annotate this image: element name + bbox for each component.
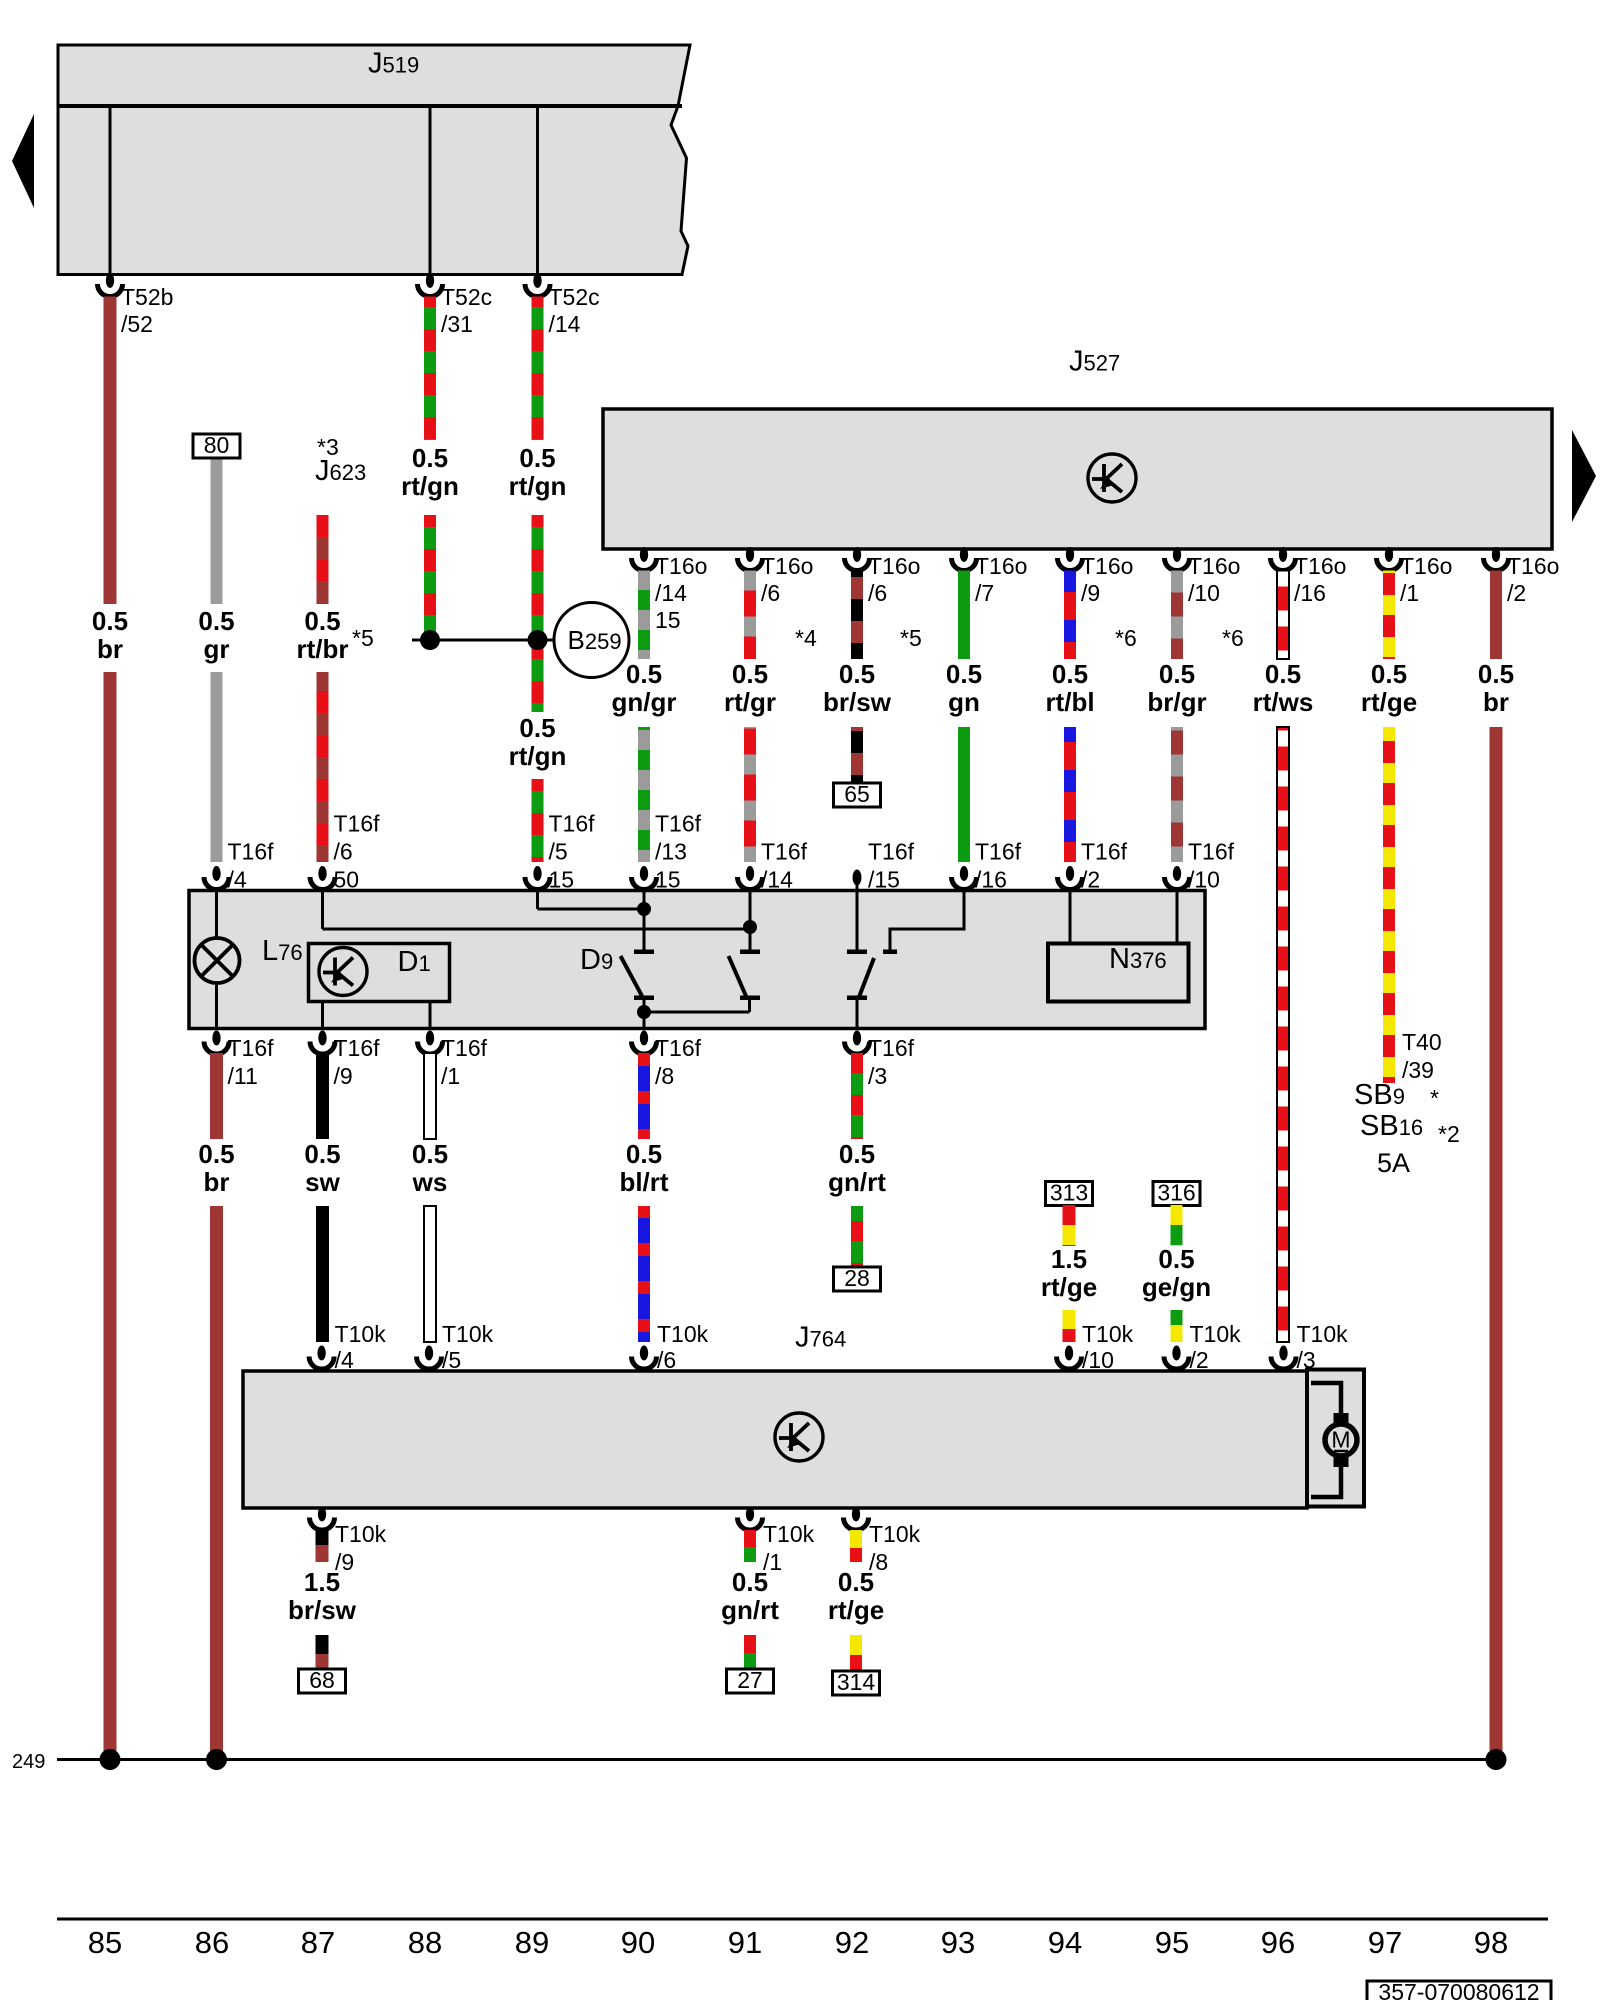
wire 0.5 rt/gn to junction: [424, 515, 436, 634]
svg-text:J764: J764: [795, 1322, 846, 1354]
label 1.5 br/sw: [288, 1567, 357, 1625]
svg-text:T16f: T16f: [549, 811, 596, 837]
svg-text:rt/bl: rt/bl: [1045, 687, 1094, 717]
wire gn/gr segment to T16f/13: [638, 727, 650, 862]
svg-text:0.5: 0.5: [839, 659, 875, 689]
wire 0.5 gn/rt from T10k/1: [744, 1530, 756, 1562]
wire 0.5 br upper segment (track 85): [104, 297, 117, 605]
svg-text:/6: /6: [761, 580, 780, 606]
svg-text:T16o: T16o: [1081, 553, 1133, 579]
switch D9 contact 3 top bar: [847, 950, 867, 955]
wire rail from T16f/6 to switch D9: [323, 928, 752, 931]
wire 0.5 ws from T16f/1: [424, 1053, 436, 1139]
svg-text:/16: /16: [975, 867, 1007, 893]
wire 0.5 br/sw short segment under J527: [851, 571, 863, 660]
label 0.5 rt/gn (left): [401, 443, 459, 501]
label 0.5 br: [1478, 659, 1514, 717]
svg-text:94: 94: [1048, 1925, 1082, 1960]
svg-text:357-070080612: 357-070080612: [1378, 1979, 1539, 2000]
svg-text:*4: *4: [795, 625, 817, 651]
wire 0.5 gn/gr short segment under J527: [638, 571, 650, 660]
label 0.5 rt/ws: [1253, 659, 1314, 717]
label 0.5 gn/rt (track 91): [721, 1567, 779, 1625]
label T16f/11: [228, 1035, 275, 1089]
svg-text:gn/rt: gn/rt: [828, 1167, 886, 1197]
current track scale line: [57, 1918, 1548, 1921]
label T10k/2: [1190, 1321, 1242, 1373]
switch illumination unit D1: [309, 944, 450, 1002]
terminal 80 box: [193, 432, 240, 458]
svg-text:28: 28: [844, 1265, 870, 1291]
label 0.5 br (track 86): [198, 1139, 234, 1197]
terminal 68 box: [299, 1667, 346, 1693]
label 0.5 rt/ge: [1361, 659, 1417, 717]
wire inside J519 to T52b/52: [109, 106, 112, 282]
wire 0.5 br long segment to ground 249 (track 98): [1490, 727, 1503, 1755]
label T16f/3: [868, 1035, 915, 1089]
svg-text:B259: B259: [568, 625, 622, 655]
svg-text:T10k: T10k: [1082, 1321, 1134, 1347]
label 0.5 bl/rt: [619, 1139, 668, 1197]
svg-text:N376: N376: [1109, 943, 1167, 975]
label 0.5 rt/gr: [724, 659, 776, 717]
svg-text:/10: /10: [1082, 1347, 1114, 1373]
label 0.5 gr: [198, 606, 234, 664]
connector T16o/9 (rt/bl): [1058, 547, 1083, 571]
svg-text:15: 15: [655, 607, 681, 633]
svg-text:T16o: T16o: [761, 553, 813, 579]
label T10k/5: [442, 1321, 494, 1373]
wire from T16f/2 to N376: [1069, 891, 1072, 944]
junction node at switch 1 feed: [637, 902, 651, 916]
label T16f/16: [975, 839, 1022, 893]
svg-text:/6: /6: [334, 839, 353, 865]
svg-text:T16o: T16o: [868, 553, 920, 579]
svg-text:gn/rt: gn/rt: [721, 1595, 779, 1625]
label T10k/1: [763, 1521, 815, 1575]
wire 1.5 rt/ge from 313: [1063, 1205, 1076, 1246]
wire from T16f/13 to switch 1: [643, 891, 646, 950]
wire from T16f/4 to lamp L76: [215, 891, 218, 939]
terminal 316 box: [1153, 1180, 1200, 1206]
wire from T16f/16 to switch 3 second contact: [890, 891, 964, 950]
connector T10k/2 (top of J764): [1164, 1346, 1189, 1370]
switch D9 blade 3: [859, 958, 874, 997]
wire 0.5 br/gr short segment under J527: [1171, 571, 1183, 660]
connector T16f/2 (top of switch unit): [1058, 866, 1083, 889]
control unit J764 box: [243, 1371, 1307, 1508]
svg-text:*6: *6: [1115, 625, 1137, 651]
svg-text:/9: /9: [334, 1063, 353, 1089]
svg-text:0.5: 0.5: [92, 606, 128, 636]
svg-text:br: br: [97, 634, 123, 664]
label T16o/14: [655, 553, 707, 633]
svg-text:T10k: T10k: [869, 1521, 921, 1547]
connector T10k/9 (bottom of J764): [310, 1507, 335, 1530]
wire from D1 to T16f/9: [321, 1002, 324, 1029]
wire 0.5 br short segment under J527: [1490, 571, 1502, 660]
svg-text:SB9: SB9: [1354, 1079, 1405, 1111]
svg-text:br/gr: br/gr: [1147, 687, 1206, 717]
switch D9 blade 1: [621, 956, 643, 996]
label T16o/6: [761, 553, 813, 606]
connector T16f/3 (bottom of switch unit): [845, 1031, 870, 1055]
terminal 65 box: [834, 781, 881, 807]
label T16f/8: [655, 1035, 702, 1089]
wire from T16f/10 to N376: [1176, 891, 1179, 944]
label T16o/16: [1294, 553, 1346, 606]
svg-text:T10k: T10k: [1297, 1321, 1349, 1347]
wire from T16f/5 to switch 1: [538, 908, 645, 911]
svg-text:0.5: 0.5: [1478, 659, 1514, 689]
svg-text:/3: /3: [868, 1063, 887, 1089]
svg-text:T52c: T52c: [549, 284, 600, 310]
wire 0.5 sw to T10k/4: [316, 1206, 329, 1342]
svg-text:0.5: 0.5: [198, 1139, 234, 1169]
terminal 313 box: [1046, 1180, 1093, 1206]
arrow continuation left: [12, 114, 34, 208]
svg-text:D1: D1: [398, 946, 431, 978]
svg-text:0.5: 0.5: [1159, 659, 1195, 689]
wire br/sw segment to terminal 65: [851, 727, 863, 783]
svg-text:0.5: 0.5: [412, 443, 448, 473]
wire from pin T16f/15 to switch 3: [856, 885, 859, 950]
svg-text:0.5: 0.5: [838, 1567, 874, 1597]
wire 0.5 rt/ge short segment under J527: [1383, 571, 1395, 660]
svg-text:/2: /2: [1081, 867, 1100, 893]
svg-text:/31: /31: [441, 311, 473, 337]
svg-text:rt/ge: rt/ge: [828, 1595, 884, 1625]
wire 0.5 gr lower segment to T16f/4: [211, 672, 223, 862]
svg-text:T16f: T16f: [655, 811, 702, 837]
terminal 28 box: [834, 1265, 881, 1291]
svg-text:0.5: 0.5: [732, 1567, 768, 1597]
connector T10k/8 (bottom of J764): [844, 1507, 869, 1530]
connector T10k/5 (top of J764): [417, 1346, 442, 1370]
wire from switch 3 to T16f/3: [856, 1000, 859, 1029]
wire 0.5 bl/rt to T10k/6: [638, 1206, 650, 1342]
wire from switch 2 to output link: [748, 1000, 751, 1012]
svg-text:T10k: T10k: [763, 1521, 815, 1547]
wire from T16f/5 down: [536, 891, 539, 910]
svg-text:T16o: T16o: [1507, 553, 1559, 579]
label T10k/3: [1297, 1321, 1349, 1373]
label T52b/52: [121, 284, 173, 337]
wire rt/ge long segment to fuse SB9/SB16: [1383, 727, 1395, 1083]
label T16o/2: [1507, 553, 1559, 606]
svg-text:0.5: 0.5: [1265, 659, 1301, 689]
svg-text:T16f: T16f: [1081, 839, 1128, 865]
svg-text:0.5: 0.5: [1052, 659, 1088, 689]
svg-text:/2: /2: [1507, 580, 1526, 606]
motor compartment box of J764: [1307, 1370, 1364, 1507]
label T10k/8: [869, 1521, 921, 1575]
junction node on switch rail: [743, 920, 757, 934]
comfort-system symbol inside J527: [1088, 454, 1136, 502]
wire 0.5 rt/gn from T52c/31 upper: [424, 297, 436, 441]
wire from T16f/14 to switch 2: [749, 891, 752, 950]
svg-text:0.5: 0.5: [304, 1139, 340, 1169]
svg-text:T16f: T16f: [334, 811, 381, 837]
label T16o/7: [975, 553, 1027, 606]
wire 0.5 br lower segment to ground 249: [104, 672, 117, 1755]
svg-text:br/sw: br/sw: [823, 687, 892, 717]
label T16f/13: [655, 811, 702, 893]
svg-text:T16f: T16f: [1188, 839, 1235, 865]
svg-text:0.5: 0.5: [839, 1139, 875, 1169]
svg-text:M: M: [1331, 1427, 1350, 1453]
connector T16o/1 (rt/ge): [1377, 547, 1402, 571]
wire from switch 1 to output node: [643, 1000, 646, 1012]
label 0.5 ws: [412, 1139, 448, 1197]
svg-text:J527: J527: [1069, 346, 1120, 378]
svg-text:0.5: 0.5: [946, 659, 982, 689]
svg-text:249: 249: [12, 1751, 45, 1773]
svg-text:/52: /52: [121, 311, 153, 337]
wire 0.5 sw from T16f/9: [316, 1053, 329, 1139]
svg-text:*5: *5: [900, 625, 922, 651]
svg-text:T16o: T16o: [1294, 553, 1346, 579]
label T52c/31: [441, 284, 492, 337]
svg-text:L76: L76: [262, 935, 303, 967]
label T16f/5: [549, 811, 596, 893]
svg-text:/7: /7: [975, 580, 994, 606]
svg-text:90: 90: [621, 1925, 655, 1960]
wire 0.5 ws to T10k/5: [424, 1206, 436, 1342]
svg-text:/39: /39: [1402, 1057, 1434, 1083]
svg-text:bl/rt: bl/rt: [619, 1167, 668, 1197]
sensor B259: [554, 603, 629, 678]
label T10k/9: [335, 1521, 387, 1575]
svg-text:91: 91: [728, 1925, 762, 1960]
svg-text:0.5: 0.5: [732, 659, 768, 689]
svg-text:T16f: T16f: [975, 839, 1022, 865]
svg-text:1.5: 1.5: [304, 1567, 340, 1597]
connector T52c/14: [525, 273, 550, 297]
connector T16f/11 (bottom of switch unit): [204, 1031, 229, 1055]
svg-text:/2: /2: [1190, 1347, 1209, 1373]
label 0.5 gn/gr: [612, 659, 677, 717]
switch D9 contact 3 bottom bar: [847, 996, 867, 1001]
svg-text:96: 96: [1261, 1925, 1295, 1960]
svg-text:T10k: T10k: [335, 1521, 387, 1547]
svg-text:92: 92: [835, 1925, 869, 1960]
junction node at T16f/8 output: [637, 1005, 651, 1019]
arrow continuation right: [1572, 430, 1596, 522]
wire 0.5 br from T16f/11: [210, 1053, 223, 1139]
connector T16f/14 (top of switch unit): [738, 866, 763, 889]
svg-text:T16f: T16f: [761, 839, 808, 865]
wire 0.5 rt/bl short segment under J527: [1064, 571, 1076, 660]
svg-text:5A: 5A: [1377, 1148, 1410, 1178]
connector T16o/7 (gn): [952, 547, 977, 571]
connector T16f/4 (top of switch unit): [204, 866, 229, 889]
J519 internal bus line: [58, 104, 682, 108]
svg-text:65: 65: [844, 781, 870, 807]
svg-text:/16: /16: [1294, 580, 1326, 606]
connector T16o/10 (br/gr): [1165, 547, 1190, 571]
wire 0.5 rt/ge to terminal 314: [850, 1635, 862, 1671]
motor M symbol: [1311, 1383, 1357, 1497]
svg-text:/3: /3: [1297, 1347, 1316, 1373]
svg-text:/4: /4: [335, 1347, 354, 1373]
connector T16f/6 (top of switch unit): [310, 866, 335, 889]
svg-text:T16o: T16o: [1400, 553, 1452, 579]
connector T16o/6 (rt/gr): [738, 547, 763, 571]
svg-text:0.5: 0.5: [519, 443, 555, 473]
svg-text:86: 86: [195, 1925, 229, 1960]
label T16f/2: [1081, 839, 1128, 893]
svg-text:/8: /8: [655, 1063, 674, 1089]
wire 0.5 rt/ws short segment under J527: [1277, 571, 1289, 660]
pin T16f/15: [853, 870, 862, 886]
terminal 314 box: [833, 1669, 880, 1695]
svg-text:ge/gn: ge/gn: [1142, 1272, 1211, 1302]
switch D9 contact 4 bar: [883, 950, 897, 955]
connector T16f/9 (bottom of switch unit): [310, 1031, 335, 1055]
svg-text:0.5: 0.5: [1158, 1244, 1194, 1274]
label T16o/10: [1188, 553, 1240, 606]
diagram reference number box: [1367, 1979, 1551, 2000]
svg-text:/5: /5: [549, 839, 568, 865]
connector T16o/6 (br/sw): [845, 547, 870, 571]
svg-text:br: br: [204, 1167, 230, 1197]
wire rt/gr segment to T16f/14: [744, 727, 756, 862]
ground junction (track 98): [1486, 1749, 1507, 1770]
wire 1.5 br/sw to terminal 68: [316, 1635, 329, 1669]
svg-text:0.5: 0.5: [626, 659, 662, 689]
comfort-system symbol inside J764: [775, 1413, 823, 1461]
svg-text:/10: /10: [1188, 580, 1220, 606]
wire 0.5 ge/gn from 316: [1171, 1205, 1183, 1246]
connector T52c/31: [418, 273, 443, 297]
switch D9 blade 2: [729, 956, 747, 996]
svg-text:br: br: [1483, 687, 1509, 717]
svg-text:rt/ge: rt/ge: [1041, 1272, 1097, 1302]
label 0.5 rt/gn (below junction): [509, 713, 567, 771]
label T40/39: [1402, 1029, 1442, 1083]
connector T10k/6 (top of J764): [632, 1346, 657, 1370]
control unit J527 box: [603, 409, 1552, 549]
wire rt/bl segment to T16f/2: [1064, 727, 1076, 862]
label 0.5 rt/br: [297, 606, 349, 664]
svg-text:T16f: T16f: [655, 1035, 702, 1061]
svg-text:/15: /15: [868, 867, 900, 893]
switch D9 contact 2 bottom bar: [740, 996, 760, 1001]
connector T16f/16 (top of switch unit): [952, 866, 977, 889]
current track numbers 85-98: [88, 1925, 1508, 1960]
wire 0.5 rt/gn mid segment: [532, 515, 544, 712]
svg-text:68: 68: [309, 1667, 335, 1693]
label T16f/14: [761, 839, 808, 893]
regulator N376 box: [1048, 944, 1189, 1002]
label T16f/6: [334, 811, 381, 893]
svg-text:T16o: T16o: [655, 553, 707, 579]
light switch control unit box: [189, 891, 1205, 1029]
svg-text:gr: gr: [204, 634, 230, 664]
svg-text:97: 97: [1368, 1925, 1402, 1960]
wire 0.5 gn/rt to terminal 27: [744, 1635, 756, 1669]
label T16o/9: [1081, 553, 1133, 606]
svg-text:T16f: T16f: [868, 839, 915, 865]
label T10k/10: [1082, 1321, 1134, 1373]
comfort-system symbol inside D1: [319, 948, 367, 996]
svg-text:SB16: SB16: [1360, 1110, 1423, 1142]
svg-text:/4: /4: [228, 867, 247, 893]
connector T16o/2 (br): [1484, 547, 1509, 571]
lamp L76: [195, 938, 240, 983]
label 0.5 br/gr: [1147, 659, 1206, 717]
ground junction (track 86): [206, 1749, 227, 1770]
svg-text:15: 15: [549, 867, 575, 893]
terminal 27 box: [727, 1667, 774, 1693]
label 1.5 rt/ge: [1041, 1244, 1097, 1302]
label T16f/10: [1188, 839, 1235, 893]
wire inside J519 to T52c/14: [536, 106, 539, 282]
svg-text:80: 80: [204, 432, 230, 458]
svg-text:gn: gn: [948, 687, 980, 717]
wire 0.5 rt/br lower segment to T16f/6: [317, 672, 329, 862]
svg-text:gn/gr: gn/gr: [612, 687, 677, 717]
svg-text:/1: /1: [441, 1063, 460, 1089]
svg-text:T10k: T10k: [442, 1321, 494, 1347]
junction node on rt/gn wire (left): [420, 630, 440, 650]
svg-text:/6: /6: [868, 580, 887, 606]
wire 0.5 br to ground 249 (track 86): [210, 1206, 223, 1755]
svg-text:89: 89: [515, 1925, 549, 1960]
svg-text:316: 316: [1157, 1180, 1195, 1206]
wire 0.5 gn short segment under J527: [958, 571, 970, 660]
label 0.5 gn: [946, 659, 982, 717]
svg-text:J519: J519: [368, 48, 419, 80]
wire link to B259: [412, 639, 556, 642]
label 0.5 sw: [304, 1139, 340, 1197]
label T16f/4: [228, 839, 275, 893]
svg-text:27: 27: [737, 1667, 763, 1693]
label 0.5 br (track 85): [92, 606, 128, 664]
connector T10k/1 (bottom of J764): [738, 1507, 763, 1530]
svg-text:/5: /5: [442, 1347, 461, 1373]
svg-text:/11: /11: [228, 1063, 258, 1089]
wire 0.5 rt/gr short segment under J527: [744, 571, 756, 660]
label T10k/6: [657, 1321, 709, 1373]
svg-text:1.5: 1.5: [1051, 1244, 1087, 1274]
svg-text:D9: D9: [580, 944, 613, 976]
svg-text:T10k: T10k: [657, 1321, 709, 1347]
wire from output node to T16f/8: [643, 1012, 646, 1029]
wire 0.5 gr upper segment: [211, 460, 223, 605]
connector T10k/10 (top of J764): [1057, 1346, 1082, 1370]
ground junction (track 85): [100, 1749, 121, 1770]
svg-text:ws: ws: [412, 1167, 448, 1197]
svg-text:T16f: T16f: [868, 1035, 915, 1061]
wire inside J519 to T52c/31: [429, 106, 432, 282]
svg-text:rt/ws: rt/ws: [1253, 687, 1314, 717]
svg-text:*6: *6: [1222, 625, 1244, 651]
wire from lamp L76 to T16f/11: [215, 983, 218, 1029]
svg-text:/10: /10: [1188, 867, 1220, 893]
svg-text:/13: /13: [655, 839, 687, 865]
svg-text:T52b: T52b: [121, 284, 173, 310]
svg-text:T16f: T16f: [441, 1035, 488, 1061]
svg-text:T16f: T16f: [334, 1035, 381, 1061]
svg-text:0.5: 0.5: [519, 713, 555, 743]
svg-text:br/sw: br/sw: [288, 1595, 357, 1625]
connector T10k/3 (top of J764): [1271, 1346, 1296, 1370]
svg-text:T16f: T16f: [228, 839, 275, 865]
wire from D1 to T16f/1: [429, 1002, 432, 1029]
svg-text:0.5: 0.5: [412, 1139, 448, 1169]
